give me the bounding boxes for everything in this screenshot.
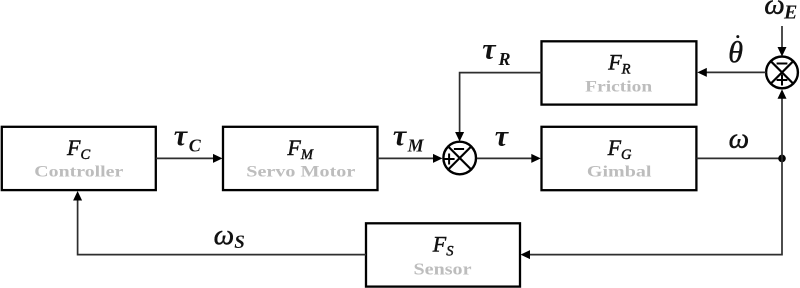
wire omega from F_G to node — [696, 157, 782, 159]
svg-text:Sensor: Sensor — [414, 260, 473, 279]
svg-text:τ: τ — [393, 119, 408, 152]
svg-text:τ: τ — [482, 33, 497, 66]
label tau_C — [174, 119, 202, 155]
summing junction S1 (torque sum) — [443, 142, 476, 175]
svg-text:S: S — [234, 232, 245, 253]
svg-text:ω: ω — [214, 219, 234, 251]
label tau — [495, 119, 510, 152]
block F_R Friction — [542, 41, 697, 104]
wire tau_M from F_M to summing junction S1 — [378, 154, 443, 163]
wire omega_S from F_S left then up to F_C — [73, 191, 366, 255]
svg-text:R: R — [498, 49, 511, 69]
svg-text:τ: τ — [495, 119, 510, 152]
label omega — [729, 122, 749, 154]
svg-text:Gimbal: Gimbal — [587, 163, 652, 180]
S2 plus sign (bottom input) — [777, 75, 788, 86]
svg-text:Servo Motor: Servo Motor — [246, 163, 355, 180]
wire tau from S1 to F_G — [477, 154, 541, 163]
block F_G Gimbal — [542, 127, 697, 190]
summing junction S2 (rate error) — [766, 57, 798, 89]
svg-text:Friction: Friction — [585, 78, 652, 95]
wire theta-dot from S2 to F_R — [697, 68, 766, 77]
svg-text:Controller: Controller — [34, 163, 123, 180]
wire tau_C from F_C to F_M — [156, 154, 223, 163]
block F_S Sensor — [366, 223, 520, 286]
svg-text:θ: θ — [728, 36, 743, 69]
label omega_E — [764, 0, 797, 24]
svg-text:C: C — [189, 136, 202, 156]
block F_M Servo Motor — [223, 127, 378, 190]
label omega_S — [214, 219, 245, 253]
wire node up to summing junction S2 — [778, 89, 787, 158]
svg-text:τ: τ — [174, 119, 189, 152]
label tau_M — [393, 119, 425, 155]
wire tau_R from F_R to S1 (left then down) — [455, 73, 541, 142]
svg-text:ω: ω — [729, 122, 749, 154]
block F_C Controller — [2, 127, 156, 190]
S2 minus sign (top input) — [777, 63, 788, 65]
svg-text:ω: ω — [764, 0, 784, 21]
label theta-dot — [728, 35, 743, 69]
node (junction dot) — [778, 155, 786, 163]
wire node down and left to F_S — [521, 158, 783, 259]
S1 minus sign (top input) — [454, 148, 464, 150]
svg-text:M: M — [407, 135, 425, 155]
label tau_R — [482, 33, 510, 69]
S1 plus sign (left input) — [444, 154, 455, 165]
svg-text:E: E — [783, 2, 797, 24]
wire omega_E input into S2 — [778, 26, 787, 57]
